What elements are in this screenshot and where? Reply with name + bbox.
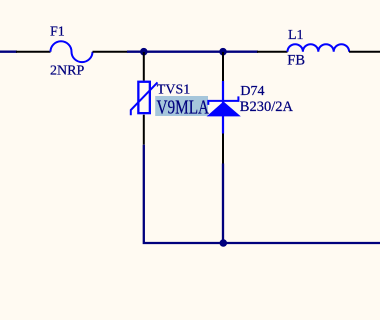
svg-text:2NRP: 2NRP	[50, 63, 84, 78]
wire (top rail, middle segment)	[127, 51, 258, 53]
wire (right branch down)	[222, 164, 224, 244]
TVS1 pin 1 (top)	[143, 52, 145, 81]
svg-text:B230/2A: B230/2A	[240, 99, 294, 115]
svg-text:D74: D74	[240, 84, 264, 99]
wire (left branch down + bottom rail)	[144, 145, 380, 243]
inductor L1 pin 1	[257, 51, 288, 53]
varistor TVS1 diagonal stroke	[131, 82, 158, 115]
fuse F1 body	[51, 41, 93, 62]
diode D74 symbol vertical lead	[222, 81, 224, 134]
diode D74 pin 2 (bottom)	[222, 134, 224, 164]
diode D74 zener cathode bar	[208, 96, 238, 105]
svg-text:V9MLA: V9MLA	[157, 95, 210, 118]
diode D74 pin 1 (top)	[222, 52, 224, 81]
junction node C (bottom of diode branch)	[220, 239, 228, 247]
wire (top rail, left segment)	[0, 51, 17, 53]
junction node A (top of TVS branch)	[140, 48, 148, 56]
svg-text:F1: F1	[50, 24, 65, 39]
inductor L1 pin 2	[349, 51, 380, 53]
svg-text:FB: FB	[287, 53, 305, 69]
in-place edit highlight box	[155, 96, 208, 116]
TVS1 pin 2 (bottom)	[143, 115, 145, 145]
diode D74 anode triangle	[207, 102, 241, 117]
svg-text:L1: L1	[288, 28, 304, 43]
varistor TVS1 body rectangle	[138, 82, 150, 113]
fuse F1 pin 2	[93, 51, 128, 53]
junction node B (top of diode branch)	[219, 48, 227, 56]
fuse F1 pin 1	[16, 51, 51, 53]
inductor L1 body	[288, 44, 350, 52]
